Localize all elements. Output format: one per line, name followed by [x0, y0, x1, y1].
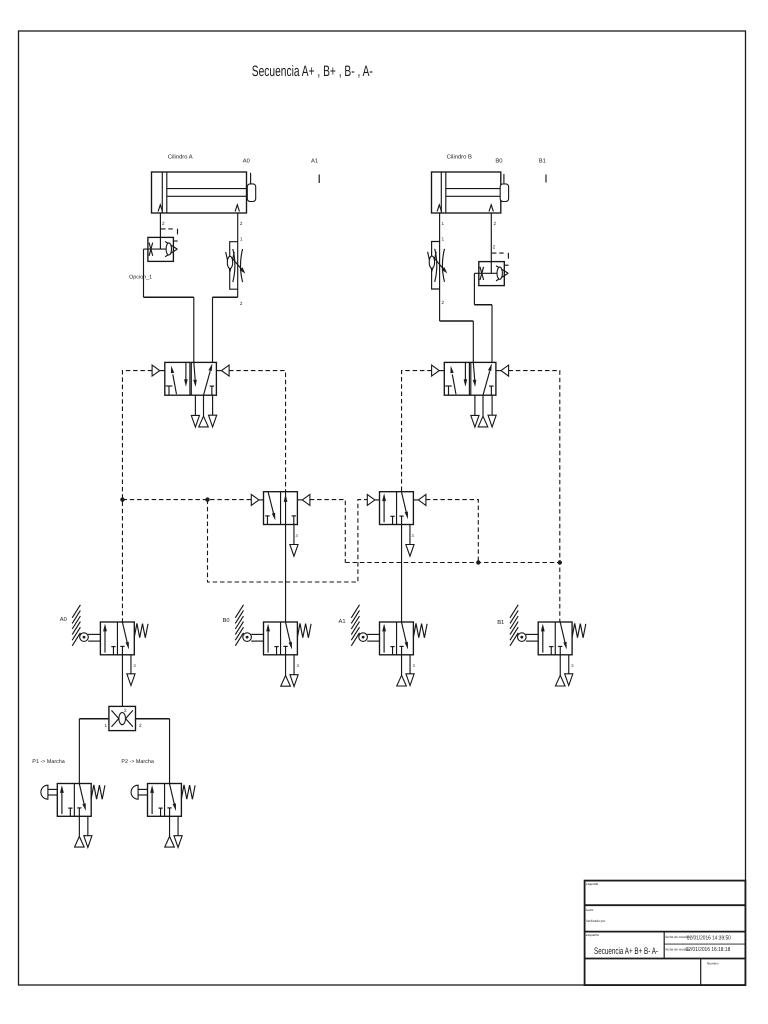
svg-text:1: 1 [105, 723, 108, 728]
svg-text:1: 1 [240, 237, 243, 242]
svg-text:2: 2 [124, 708, 127, 713]
svg-text:02/01/2016 16:18:18: 02/01/2016 16:18:18 [686, 946, 731, 953]
svg-text:Secuencia A+ B+ B- A-: Secuencia A+ B+ B- A- [594, 946, 658, 957]
svg-text:B1: B1 [539, 158, 546, 164]
svg-text:2: 2 [494, 221, 497, 226]
svg-text:02/01/2016 14:39:50: 02/01/2016 14:39:50 [687, 934, 731, 941]
svg-text:B0: B0 [495, 158, 502, 165]
svg-text:2: 2 [139, 723, 142, 728]
svg-text:2: 2 [493, 245, 496, 250]
svg-text:2: 2 [240, 301, 243, 306]
svg-text:2: 2 [240, 221, 243, 226]
svg-text:Secuencia A+ , B+ , B- , A-: Secuencia A+ , B+ , B- , A- [252, 63, 373, 80]
svg-text:Autor: Autor [586, 908, 595, 912]
svg-text:A1: A1 [339, 619, 346, 625]
svg-text:1: 1 [442, 221, 445, 226]
svg-text:2: 2 [442, 300, 445, 305]
svg-text:Legenda: Legenda [586, 882, 599, 886]
svg-text:Cilindro B: Cilindro B [447, 153, 472, 160]
svg-text:1: 1 [442, 237, 445, 242]
svg-text:Opcion_1: Opcion_1 [129, 274, 152, 280]
svg-text:2: 2 [162, 221, 165, 226]
svg-text:Cilindro A: Cilindro A [168, 154, 193, 161]
svg-text:A0: A0 [243, 157, 250, 164]
svg-text:B1: B1 [497, 620, 504, 626]
svg-text:A1: A1 [311, 158, 318, 164]
svg-text:Numero: Numero [707, 962, 719, 966]
svg-text:B0: B0 [223, 617, 230, 624]
svg-text:A0: A0 [60, 616, 67, 623]
svg-text:P1 -> Marcha: P1 -> Marcha [32, 759, 65, 765]
svg-text:esquema: esquema [586, 933, 599, 937]
svg-text:Verificado por: Verificado por [586, 919, 606, 923]
svg-text:P2 -> Marcha: P2 -> Marcha [121, 759, 154, 765]
